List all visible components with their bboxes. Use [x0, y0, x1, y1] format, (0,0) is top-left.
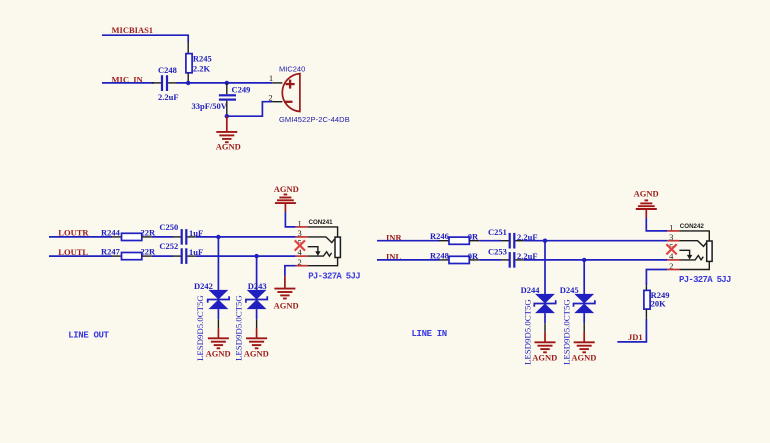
svg-text:D245: D245 — [560, 285, 579, 295]
pin 4 — [296, 247, 332, 257]
wire MICBIAS1 — [102, 35, 188, 42]
capacitor C250 — [181, 229, 188, 245]
label C248 — [158, 65, 177, 75]
wire to D245 — [583, 260, 585, 294]
net label JD1 — [628, 332, 643, 342]
resistor R245 — [186, 54, 192, 73]
resistor R248 — [449, 256, 469, 263]
value LESD9D5.0CT5G (rotated) — [234, 295, 244, 361]
pin 2 (mic) — [268, 93, 282, 103]
value 1uF — [189, 228, 203, 238]
resistor R246 — [449, 237, 469, 244]
svg-text:LESD9D5.0CT5G: LESD9D5.0CT5G — [195, 295, 205, 361]
pin (R246 right) — [469, 240, 479, 242]
pin (R248 left) — [439, 259, 449, 261]
net label INR — [386, 232, 402, 242]
label R249 — [651, 290, 670, 300]
pin 2 — [667, 261, 710, 271]
svg-text:C249: C249 — [232, 85, 251, 95]
label C251 — [488, 227, 507, 237]
node junction C249/MIC_IN — [225, 81, 229, 85]
svg-text:LINE OUT: LINE OUT — [68, 330, 109, 340]
resistor R244 — [122, 233, 142, 240]
svg-text:LESD9D5.0CT5G: LESD9D5.0CT5G — [523, 299, 533, 365]
wire LOUTL — [49, 255, 112, 257]
ground AGND (CON241 top) — [274, 184, 299, 212]
net label INL — [386, 252, 401, 262]
wire C251 to CON242 pin3 — [524, 240, 668, 242]
net label LOUTR — [58, 228, 89, 238]
value PJ-327A 5JJ — [308, 271, 360, 281]
pin (C250 left) — [173, 236, 181, 238]
capacitor C248 — [161, 75, 168, 91]
svg-text:D244: D244 — [521, 285, 541, 295]
value 2.2uF — [158, 92, 179, 102]
pin (C249 bottom) — [226, 101, 228, 117]
net label MIC_IN — [112, 74, 144, 84]
svg-text:R244: R244 — [101, 227, 121, 237]
pin (R248 right) — [469, 259, 479, 261]
value LESD9D5.0CT5G (rotated) — [523, 299, 533, 365]
label R246 — [430, 231, 449, 241]
ground AGND (D244) — [532, 332, 557, 362]
pin (C252 left) — [173, 255, 181, 257]
value 2.2uF — [517, 232, 538, 242]
no-connect X (pin 5) — [666, 244, 676, 254]
pin (C251 left) — [501, 240, 509, 242]
wire INL — [377, 259, 439, 261]
wire C253 to CON242 pin4 — [524, 259, 668, 261]
pin (R247 right) — [142, 255, 152, 257]
label R248 — [430, 250, 449, 260]
svg-text:CON242: CON242 — [680, 223, 705, 230]
svg-text:C250: C250 — [159, 222, 178, 232]
wire AGND to pin1 — [285, 212, 295, 227]
net label LOUTL — [58, 247, 88, 257]
wire to D243 — [256, 256, 258, 290]
pin (R244 right) — [142, 236, 152, 238]
wire MIC_IN — [102, 82, 154, 84]
svg-text:R247: R247 — [101, 247, 121, 257]
svg-text:AGND: AGND — [244, 349, 269, 359]
svg-text:MIC240: MIC240 — [279, 64, 305, 73]
wire pin2 to R249 — [646, 270, 667, 286]
pin 5 — [669, 242, 692, 260]
label D242 — [194, 281, 213, 291]
connector CON241 — [309, 219, 334, 226]
value LESD9D5.0CT5G (rotated) — [195, 295, 205, 361]
svg-text:D243: D243 — [248, 281, 267, 291]
svg-text:CON241: CON241 — [309, 219, 334, 226]
pin 1 — [296, 218, 339, 228]
pin 2 — [296, 257, 339, 267]
svg-text:AGND: AGND — [274, 184, 299, 194]
svg-text:2.2K: 2.2K — [193, 64, 211, 74]
wire C250 to CON241 pin3 — [196, 236, 296, 238]
svg-text:AGND: AGND — [206, 349, 231, 359]
section label LINE IN — [412, 329, 447, 339]
label MIC240 — [279, 64, 305, 73]
pin (R245 bottom) — [187, 73, 189, 83]
svg-text:22R: 22R — [141, 227, 157, 237]
wire AGND to pin1 — [646, 218, 667, 231]
wire R249 to JD1 — [617, 319, 646, 342]
value 2.2K — [193, 64, 211, 74]
section label LINE OUT — [68, 330, 109, 340]
pin (D243 bottom) — [256, 309, 258, 328]
ground AGND (mic) — [216, 116, 241, 151]
wire R246 to C251 — [479, 240, 501, 242]
pin 3 — [296, 228, 335, 243]
label D243 — [248, 281, 267, 291]
pin (D245 bottom) — [583, 313, 585, 332]
wire R247 to C252 — [152, 255, 173, 257]
pin (C253 left) — [501, 259, 509, 261]
svg-text:AGND: AGND — [216, 141, 241, 151]
svg-text:R246: R246 — [430, 231, 449, 241]
value 1uF — [189, 247, 203, 257]
pin (C251 right) — [515, 240, 523, 242]
pin 4 — [667, 251, 703, 261]
svg-text:LESD9D5.0CT5G: LESD9D5.0CT5G — [234, 295, 244, 361]
svg-text:1: 1 — [269, 73, 273, 83]
wire R248 to C253 — [479, 259, 501, 261]
net label MICBIAS1 — [112, 25, 154, 35]
wire to D244 — [544, 241, 546, 295]
pin 5 — [297, 238, 320, 256]
svg-text:AGND: AGND — [274, 300, 299, 310]
svg-text:GMI4522P-2C-44DB: GMI4522P-2C-44DB — [279, 115, 350, 124]
label C253 — [488, 246, 507, 256]
node junction D245 — [582, 258, 586, 262]
label D244 — [521, 285, 541, 295]
label R245 — [193, 54, 212, 64]
svg-text:AGND: AGND — [571, 353, 596, 363]
ground AGND (D242) — [206, 328, 231, 358]
pin (R244 left) — [112, 236, 122, 238]
label C249 — [232, 85, 251, 95]
diode D244 — [534, 294, 555, 313]
pin (D242 bottom) — [217, 309, 219, 328]
svg-text:33pF/50V: 33pF/50V — [192, 101, 228, 111]
svg-text:LINE IN: LINE IN — [412, 329, 447, 339]
svg-text:R248: R248 — [430, 250, 449, 260]
pin (C250 right) — [187, 236, 195, 238]
label R244 — [101, 227, 121, 237]
pin (R249 top) — [645, 285, 647, 290]
pin (R246 left) — [439, 240, 449, 242]
value LESD9D5.0CT5G (rotated) — [562, 299, 572, 365]
diode D243 — [246, 290, 267, 309]
pin (R245 top) — [187, 42, 189, 55]
svg-text:AGND: AGND — [532, 353, 557, 363]
label C250 — [159, 222, 178, 232]
value 22R — [141, 247, 157, 257]
microphone MIC240 — [282, 74, 300, 112]
wire mic pin2 to C249 node — [227, 102, 272, 117]
label D245 — [560, 285, 579, 295]
wire LOUTR — [49, 236, 112, 238]
label C252 — [159, 241, 178, 251]
value PJ-327A 5JJ — [679, 275, 731, 285]
svg-text:PJ-327A 5JJ: PJ-327A 5JJ — [679, 275, 731, 285]
capacitor C249 — [219, 94, 236, 101]
wire INR — [377, 240, 439, 242]
svg-text:22R: 22R — [141, 247, 157, 257]
svg-text:JD1: JD1 — [628, 332, 643, 342]
jack body CON242 — [707, 231, 712, 270]
svg-text:D242: D242 — [194, 281, 213, 291]
ground AGND (CON241 bottom) — [274, 276, 299, 310]
capacitor C251 — [509, 233, 516, 249]
value 33pF/50V — [192, 101, 228, 111]
pin (C252 right) — [187, 255, 195, 257]
ground AGND (CON242 top) — [634, 189, 659, 218]
diode D245 — [574, 294, 595, 313]
pin (C248 left) — [152, 82, 161, 84]
node junction D244 — [543, 239, 547, 243]
ground AGND (D243) — [244, 328, 269, 358]
svg-text:LESD9D5.0CT5G: LESD9D5.0CT5G — [562, 299, 572, 365]
svg-text:20K: 20K — [651, 298, 667, 308]
pin (R249 bottom) — [645, 309, 647, 319]
value 0R — [468, 232, 479, 242]
svg-text:2.2uF: 2.2uF — [158, 92, 179, 102]
capacitor C253 — [509, 252, 516, 268]
wire C252 to CON241 pin4 — [196, 255, 296, 257]
resistor R247 — [122, 253, 142, 260]
pin (R247 left) — [112, 255, 122, 257]
node junction AGND — [225, 114, 229, 118]
svg-text:C252: C252 — [159, 241, 178, 251]
ground AGND (D245) — [571, 332, 596, 362]
pin (C253 right) — [515, 259, 523, 261]
pin (C248 right) — [168, 82, 176, 84]
value 0R — [468, 251, 479, 261]
svg-text:PJ-327A 5JJ: PJ-327A 5JJ — [308, 271, 360, 281]
wire pin2 to AGND — [285, 266, 296, 277]
no-connect X (pin 5) — [295, 240, 305, 250]
value 22R — [141, 227, 157, 237]
pin 3 — [667, 232, 706, 246]
value GMI4522P-2C-44DB — [279, 115, 350, 124]
wire R244 to C250 — [152, 236, 173, 238]
node junction R245/MIC_IN — [186, 81, 190, 85]
svg-text:C253: C253 — [488, 246, 507, 256]
wire to mic — [177, 82, 273, 84]
svg-text:AGND: AGND — [634, 189, 659, 199]
pin (C249 top) — [226, 83, 228, 94]
jack body CON241 — [335, 227, 340, 266]
label R247 — [101, 247, 121, 257]
svg-text:C251: C251 — [488, 227, 507, 237]
wire to D242 — [217, 237, 219, 290]
svg-text:C248: C248 — [158, 65, 177, 75]
pin 1 (mic) — [269, 73, 283, 83]
connector CON242 — [680, 223, 705, 230]
diode D242 — [208, 290, 229, 309]
svg-text:2: 2 — [268, 93, 272, 103]
node junction D242 — [216, 235, 220, 239]
value 2.2uF — [517, 251, 538, 261]
capacitor C252 — [181, 248, 188, 264]
svg-text:R245: R245 — [193, 54, 212, 64]
svg-text:MICBIAS1: MICBIAS1 — [112, 25, 154, 35]
pin (D244 bottom) — [544, 313, 546, 332]
pin 1 — [667, 222, 710, 232]
value 20K — [651, 298, 667, 308]
resistor R249 — [644, 290, 650, 309]
node junction D243 — [254, 254, 258, 258]
